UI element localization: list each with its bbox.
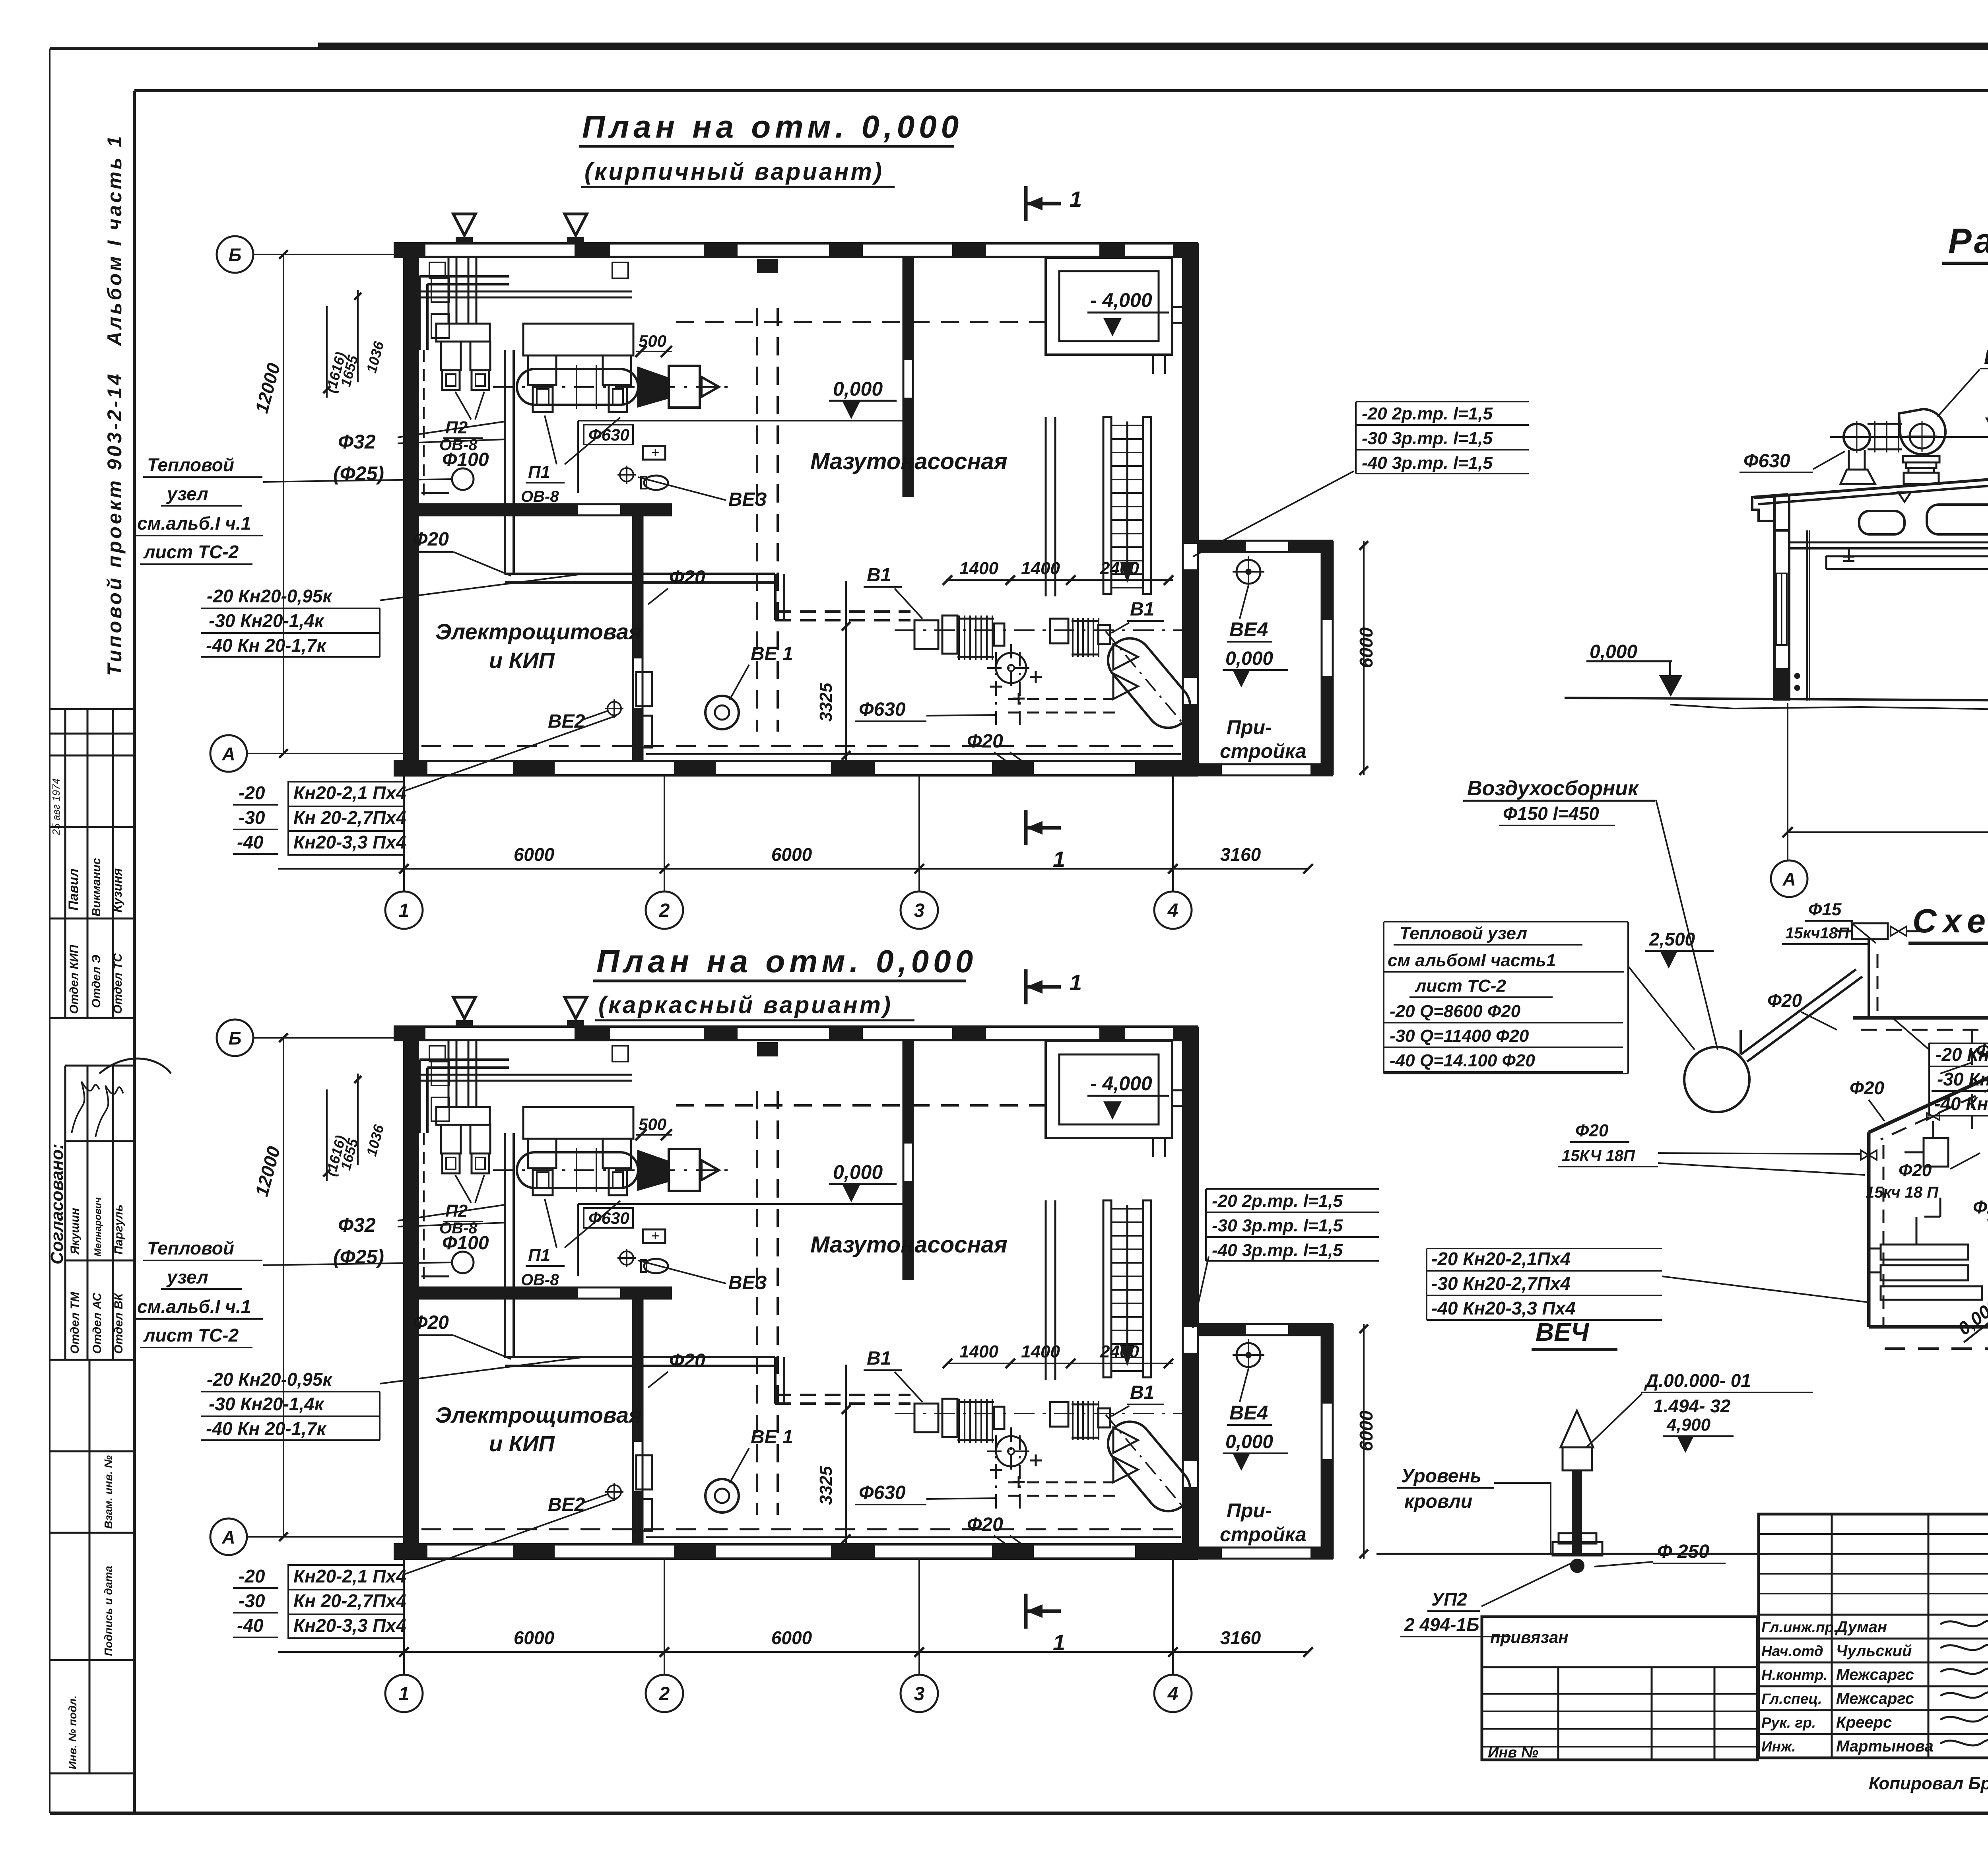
schema main run 2.500 level	[1853, 1016, 1988, 1020]
svg-text:15КЧ 18П: 15КЧ 18П	[1562, 1147, 1635, 1165]
svg-text:4,900: 4,900	[1666, 1415, 1711, 1435]
svg-text:Отдел ТМ: Отдел ТМ	[68, 1291, 82, 1354]
VE4 vent cap	[1561, 1411, 1593, 1447]
svg-text:УП2: УП2	[1431, 1589, 1467, 1610]
section fan B1 duct flanges	[1868, 423, 1902, 425]
schema bottom run	[1869, 1313, 1988, 1327]
svg-text:Креерс: Креерс	[1836, 1714, 1892, 1731]
inner drawing frame	[134, 89, 1988, 92]
svg-text:-30 3р.тр. l=1,5: -30 3р.тр. l=1,5	[1362, 429, 1493, 448]
svg-text:Ф630: Ф630	[1743, 450, 1790, 472]
svg-text:Отдел Э: Отдел Э	[90, 955, 103, 1008]
svg-text:Отдел КИП: Отдел КИП	[68, 944, 81, 1014]
svg-text:Альбом I часть 1: Альбом I часть 1	[103, 134, 126, 347]
svg-text:Межсаргс: Межсаргс	[1836, 1666, 1914, 1683]
svg-text:лист ТС-2: лист ТС-2	[1415, 976, 1506, 996]
svg-text:Отдел АС: Отдел АС	[91, 1292, 104, 1354]
svg-text:Ф20: Ф20	[1767, 990, 1802, 1011]
VE4 shaft	[1572, 1470, 1582, 1555]
svg-text:В1: В1	[1984, 346, 1988, 368]
schema valve on left edge	[1861, 1150, 1869, 1160]
section fan B1 base	[1903, 456, 1939, 462]
svg-text:Кузиня: Кузиня	[110, 868, 124, 913]
title block attachment table	[1482, 1617, 1757, 1760]
section roof slopes	[1754, 476, 1988, 499]
svg-text:Рук. гр.: Рук. гр.	[1761, 1714, 1816, 1731]
svg-text:Инв. № подл.: Инв. № подл.	[66, 1695, 79, 1769]
svg-text:Нач.отд: Нач.отд	[1761, 1643, 1823, 1659]
svg-text:2,500: 2,500	[1649, 929, 1695, 949]
svg-text:-20 Кн20-2,1Пх4: -20 Кн20-2,1Пх4	[1431, 1248, 1571, 1269]
section dim 12000	[1787, 703, 1788, 860]
svg-text:-20 Кн20-0,95к: -20 Кн20-0,95к	[1936, 1044, 1988, 1065]
section fan B1 housing	[1899, 409, 1945, 454]
svg-text:Инв №: Инв №	[1488, 1744, 1538, 1761]
svg-text:Ф20: Ф20	[1899, 1161, 1932, 1180]
svg-text:Подпись и дата: Подпись и дата	[102, 1566, 115, 1656]
schema dashed risers	[1971, 1030, 1973, 1133]
left stamp table 4 archive cells	[50, 1359, 134, 1361]
svg-text:Копировал Бралиша: Копировал Бралиша	[1869, 1774, 1988, 1793]
svg-text:25 авг 1974: 25 авг 1974	[50, 779, 62, 835]
svg-text:Н.контр.: Н.контр.	[1761, 1667, 1827, 1683]
schema expansion tank circle	[1684, 1047, 1749, 1112]
svg-text:Гл.спец.: Гл.спец.	[1761, 1691, 1822, 1707]
svg-text:Отдел ВК: Отдел ВК	[112, 1292, 125, 1354]
svg-text:Павил: Павил	[66, 868, 81, 911]
svg-text:План на отм. 0,000: План на отм. 0,000	[596, 944, 977, 979]
section ground line	[1565, 698, 1988, 703]
svg-text:Чульский: Чульский	[1836, 1642, 1912, 1660]
svg-text:Воздухосборник: Воздухосборник	[1467, 777, 1639, 800]
section truss holes	[1859, 511, 1905, 534]
svg-text:Думан: Думан	[1835, 1618, 1887, 1636]
svg-text:15кч18П: 15кч18П	[1785, 924, 1850, 942]
svg-text:ВЕЧ: ВЕЧ	[1536, 1318, 1590, 1346]
svg-text:-20 2р.тр. l=1,5: -20 2р.тр. l=1,5	[1362, 404, 1493, 423]
svg-text:Мартынова: Мартынова	[1836, 1738, 1934, 1755]
section column left dots	[1795, 674, 1800, 678]
schema left edge	[1867, 1132, 1871, 1327]
svg-text:Уровень: Уровень	[1401, 1466, 1481, 1487]
svg-text:Паргуль: Паргуль	[112, 1204, 125, 1254]
svg-text:Якушин: Якушин	[68, 1208, 82, 1255]
svg-text:-30 Кн20-1,4к: -30 Кн20-1,4к	[1937, 1069, 1988, 1089]
section crane beams	[1843, 548, 1854, 561]
svg-text:Взам. инв. №: Взам. инв. №	[102, 1455, 115, 1529]
title block signature table	[1759, 1514, 1988, 1758]
svg-text:-30 Кн20-2,7Пх4: -30 Кн20-2,7Пх4	[1431, 1273, 1571, 1294]
svg-text:Викманис: Викманис	[90, 858, 103, 916]
svg-text:Ф150 l=450: Ф150 l=450	[1503, 803, 1599, 824]
lower plan (frame variant)	[134, 969, 1376, 1712]
section cornice left	[1752, 494, 1788, 530]
svg-text:-30 3р.тр. l=1,5: -30 3р.тр. l=1,5	[1212, 1216, 1343, 1235]
svg-text:Ф15: Ф15	[1808, 900, 1842, 919]
svg-text:Ф20: Ф20	[1575, 1121, 1609, 1140]
VE4 base flange	[1559, 1533, 1596, 1544]
svg-text:Д.00.000- 01: Д.00.000- 01	[1644, 1370, 1751, 1391]
svg-text:-40 3р.тр. l=1,5: -40 3р.тр. l=1,5	[1362, 453, 1493, 473]
svg-text:привязан: привязан	[1490, 1628, 1569, 1647]
schema diagonal top edge	[1869, 1018, 1988, 1132]
svg-text:Межсаргс: Межсаргс	[1836, 1690, 1914, 1707]
svg-text:(каркасный вариант): (каркасный вариант)	[598, 992, 893, 1018]
svg-text:-40 Q=14.100 Ф20: -40 Q=14.100 Ф20	[1390, 1051, 1535, 1070]
svg-text:(кирпичный вариант): (кирпичный вариант)	[584, 158, 884, 185]
section duct	[1826, 555, 1988, 557]
svg-text:Гл.инж.пр.: Гл.инж.пр.	[1761, 1619, 1838, 1635]
svg-text:см альбомI часть1: см альбомI часть1	[1388, 951, 1556, 970]
svg-text:Типовой проект 903-2-14: Типовой проект 903-2-14	[103, 372, 126, 676]
section column left	[1773, 495, 1776, 701]
svg-text:-40 3р.тр. l=1,5: -40 3р.тр. l=1,5	[1212, 1241, 1343, 1260]
VE4 roof line	[1376, 1553, 1765, 1555]
section roof v-joints	[1898, 492, 1911, 502]
svg-text:Тепловой узел: Тепловой узел	[1400, 924, 1527, 943]
schema radiators	[1881, 1245, 1968, 1260]
svg-text:-20 Q=8600 Ф20: -20 Q=8600 Ф20	[1390, 1002, 1521, 1021]
svg-text:1.494- 32: 1.494- 32	[1653, 1396, 1731, 1416]
svg-text:Мелнарович: Мелнарович	[93, 1197, 103, 1256]
svg-text:А: А	[1782, 869, 1796, 889]
left stamp table 2 departments	[50, 1017, 134, 1019]
svg-text:Схема отопления: Схема отопления	[1912, 902, 1988, 940]
svg-text:0,000: 0,000	[1590, 641, 1637, 662]
schema top assembly	[1852, 923, 1888, 939]
svg-text:кровли: кровли	[1404, 1491, 1472, 1512]
section axis circle А	[1771, 860, 1807, 897]
left stamp table 1 signatures	[50, 708, 134, 710]
section fan B1 small cyclone	[1844, 424, 1870, 450]
svg-text:Ф20: Ф20	[1850, 1078, 1884, 1098]
svg-text:Инж.: Инж.	[1761, 1738, 1796, 1755]
svg-text:2 494-1Б: 2 494-1Б	[1404, 1614, 1479, 1635]
schema level 0.000	[1951, 1279, 1988, 1355]
svg-text:Ф 250: Ф 250	[1657, 1541, 1709, 1562]
svg-text:-40 Кн20-3,3 Пх4: -40 Кн20-3,3 Пх4	[1431, 1298, 1576, 1318]
svg-text:-40 Кн 20-1,7К: -40 Кн 20-1,7К	[1934, 1093, 1988, 1114]
upper plan (brick variant)	[134, 186, 1376, 929]
svg-text:-30 Q=11400 Ф20: -30 Q=11400 Ф20	[1390, 1026, 1529, 1046]
left stamp signature scribbles	[72, 1082, 99, 1133]
section truss bottom chord	[1790, 542, 1988, 544]
svg-text:План на отм. 0,000: План на отм. 0,000	[582, 109, 963, 144]
svg-text:0,000: 0,000	[1954, 1295, 1988, 1339]
svg-text:15кч 18 П: 15кч 18 П	[1866, 1184, 1939, 1201]
svg-text:Отдел ТС: Отдел ТС	[111, 953, 124, 1014]
svg-text:-20 2р.тр. l=1,5: -20 2р.тр. l=1,5	[1212, 1191, 1343, 1211]
svg-text:Согласовано:: Согласовано:	[47, 1144, 67, 1264]
svg-text:Разрез 1-1: Разрез 1-1	[1948, 221, 1988, 260]
sheet outer border	[50, 47, 1988, 50]
svg-text:Ф20: Ф20	[1973, 1197, 1988, 1217]
